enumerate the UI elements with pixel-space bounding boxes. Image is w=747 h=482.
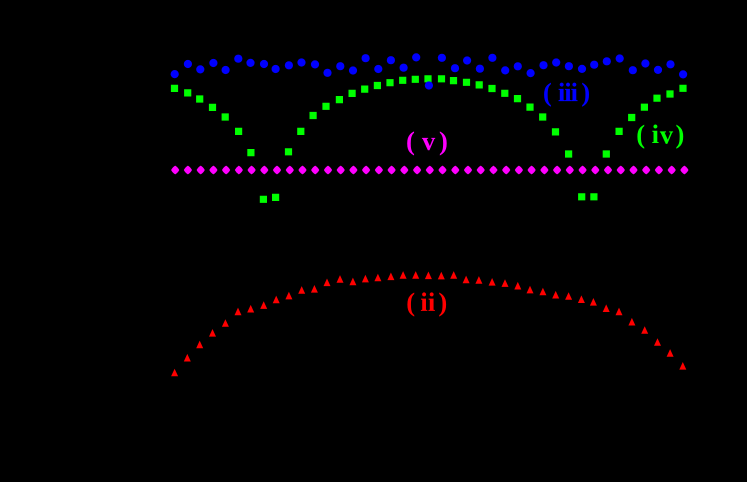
label (iii) blue	[544, 83, 589, 107]
series (v): magenta diamond horizontal line	[171, 166, 688, 175]
series (ii): red triangles arc	[171, 271, 686, 376]
label (ii) red	[407, 292, 446, 316]
label (iv) green	[637, 125, 683, 149]
series (iv): green squares folded branch	[171, 75, 687, 203]
series (iii): blue circles scatter	[171, 53, 688, 89]
label (v) magenta	[407, 131, 446, 155]
